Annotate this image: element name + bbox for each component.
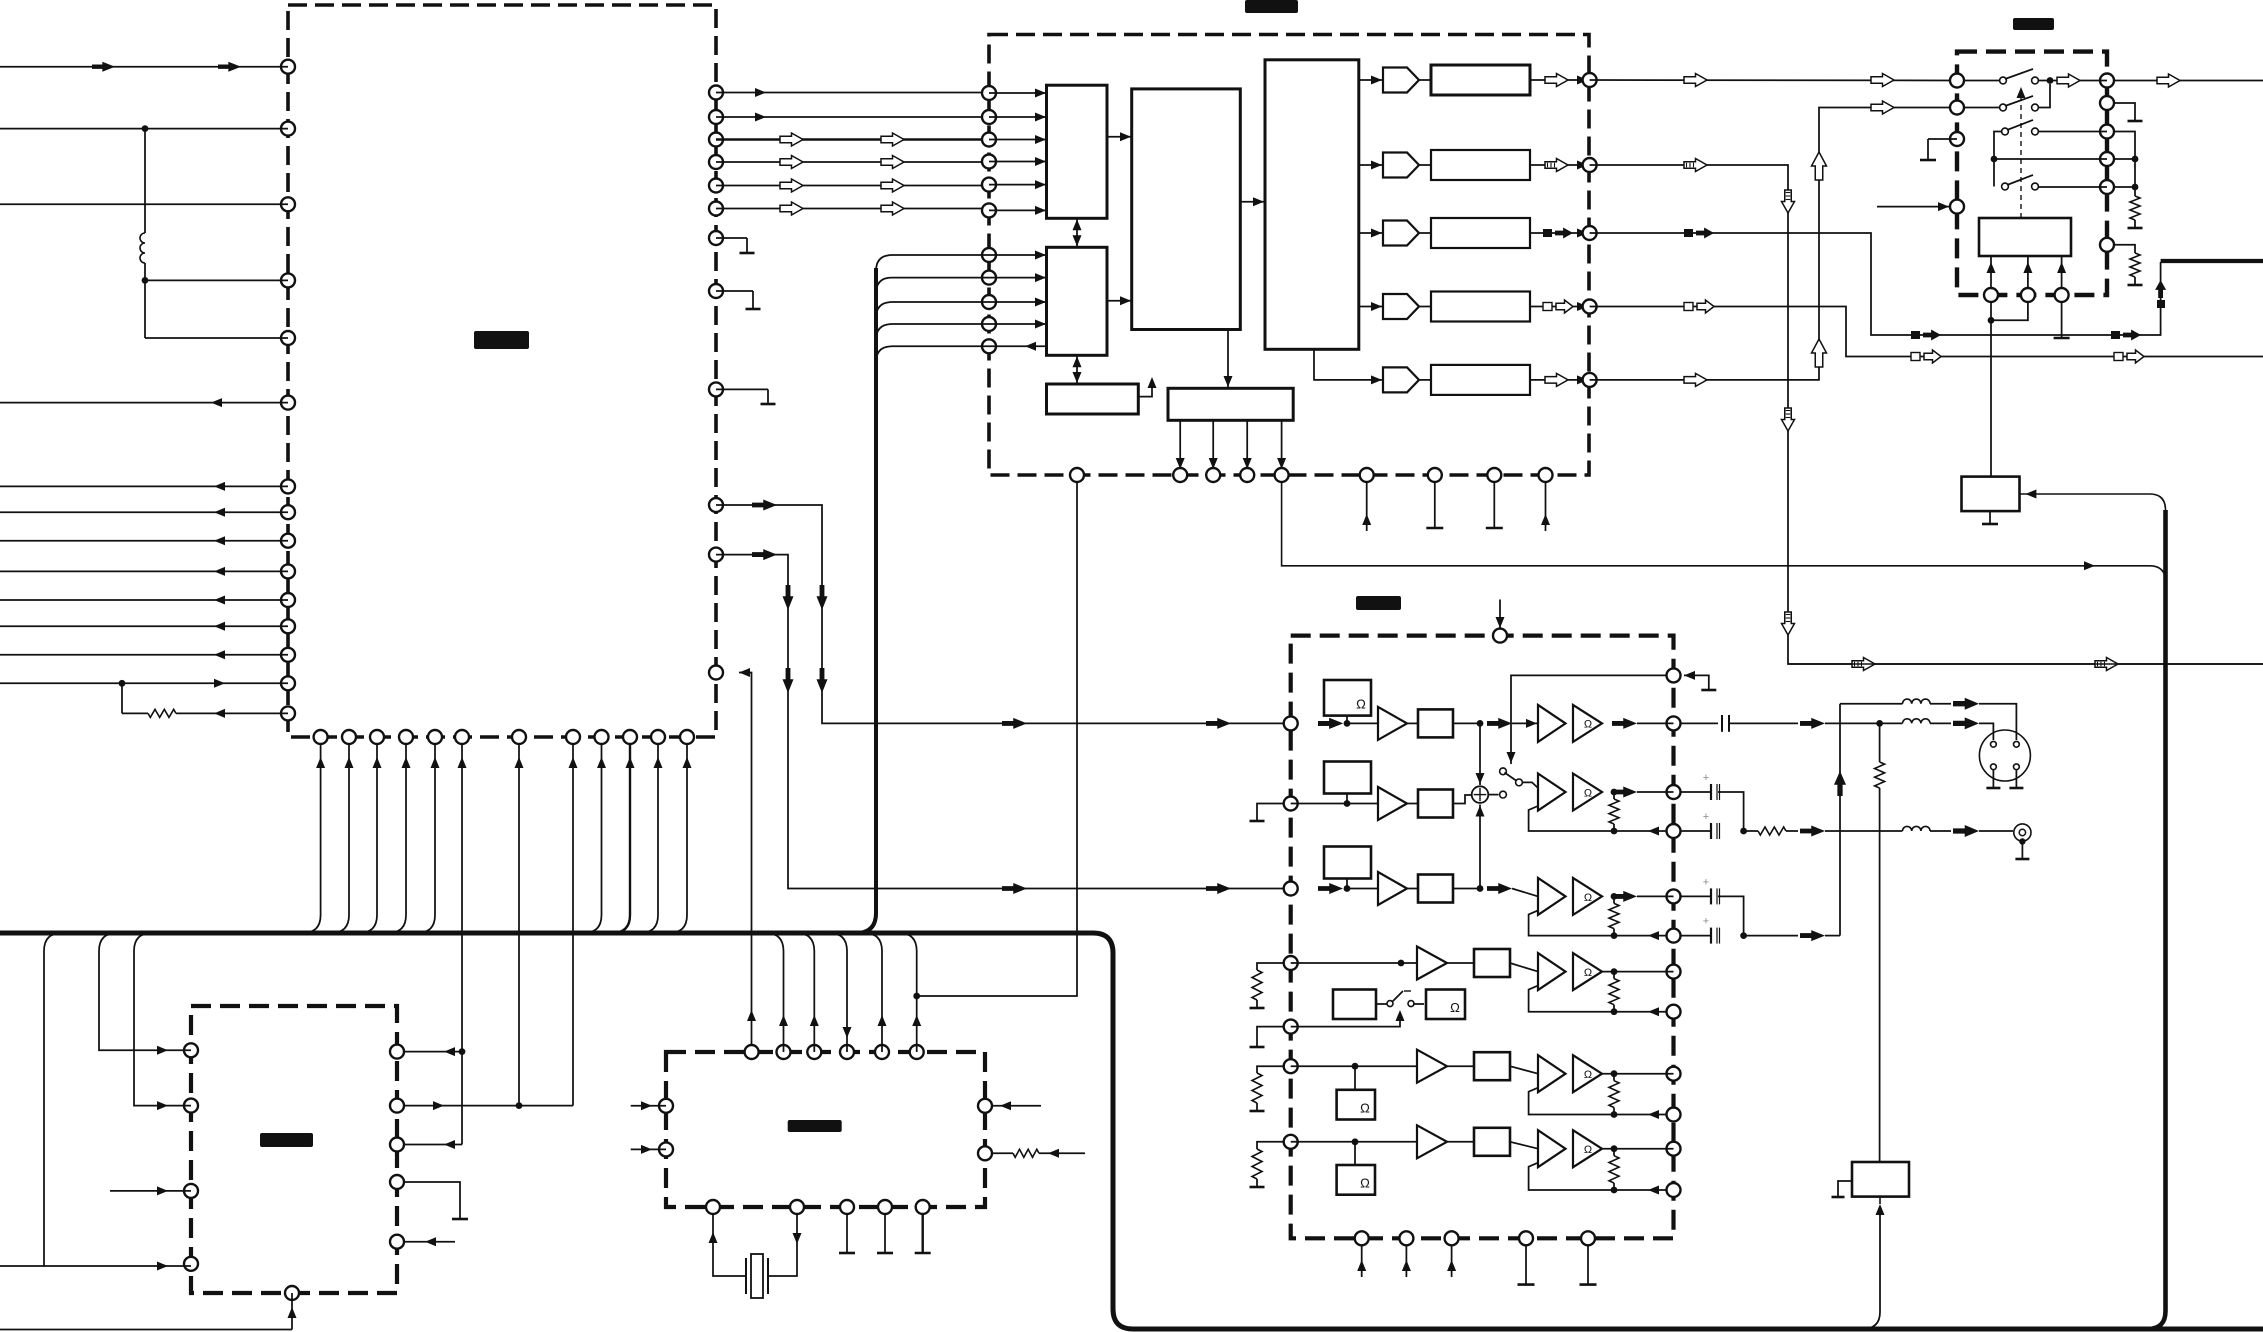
DSP core block inside IC2	[1132, 89, 1241, 330]
supply stubs at IC4 bottom pins	[1357, 1245, 1456, 1277]
DAC ch5 output wire to IC2 pin	[1419, 373, 1590, 386]
control-register block inside IC2	[1047, 247, 1108, 355]
wire DSP core down to timing block	[1224, 330, 1233, 389]
IC3 output wire to right edge	[2114, 74, 2263, 87]
IC2 part-number label (redacted)	[1245, 0, 1298, 13]
clock output stub with up arrow	[1138, 377, 1156, 397]
svg-text:Ω: Ω	[1584, 892, 1592, 904]
DAC ch4 output wire to IC2 pin	[1419, 300, 1590, 313]
bidirectional arrow between serial and control blocks	[1073, 218, 1082, 247]
DAC ch1 output wire to IC2 pin	[1419, 74, 1590, 87]
right-side bus riser (thick)	[2148, 510, 2166, 1329]
stub into IC5 pin R5	[404, 1237, 456, 1246]
IC1 system-control microprocessor (dashed outline)	[288, 5, 716, 737]
IC4 left pins	[1284, 716, 1298, 1148]
wire branch to IC1 pin 4	[142, 277, 288, 284]
IC2 digital signal processor (dashed outline)	[989, 35, 1589, 476]
DAC cell ch2 (U2)	[1383, 153, 1419, 178]
DIN connector CN1	[1979, 730, 2030, 781]
inductor L2 on front-output line	[1903, 717, 1994, 740]
wire to IC1 pin 2	[0, 125, 288, 132]
switch SW1-4	[1994, 159, 2107, 190]
IC4 ch3 output driver pair with feedback	[1529, 878, 1674, 940]
ground at IC3 ctrl pin	[1920, 139, 1957, 160]
serial-interface block inside IC2	[1047, 85, 1108, 218]
LPF block ch1	[1431, 65, 1530, 95]
wire IC1 bottom pin through bus (x573)	[569, 744, 578, 1106]
IC4 ch1 input attenuator with level box	[1318, 680, 1371, 729]
LPF block ch2	[1431, 150, 1530, 180]
electrolytic capacitors on ch3 output	[1680, 876, 1841, 943]
bidirectional arrow control block to clock block	[1073, 355, 1082, 384]
wire DAC ch3 to right edge (solid-square arrows)	[1590, 228, 2167, 341]
IC4 ch1 output driver pair	[1477, 705, 1674, 742]
timing control block inside IC2	[1168, 388, 1293, 420]
switch SW1-1 (main/sub select)	[1963, 69, 2107, 87]
inductor L1 on vertical branch	[140, 129, 145, 281]
IC5 right pins	[390, 1045, 404, 1249]
resistor R6 into IC6 right pin 2	[992, 1149, 1086, 1158]
wire ch1 tap down to summing node	[1476, 723, 1485, 785]
rear line crossing wire (y664)	[1789, 663, 2263, 665]
IC4 ch3 level box buffer filter	[1324, 847, 1538, 906]
svg-text:Ω: Ω	[1584, 967, 1592, 979]
data wire IC5 to IC1	[397, 1101, 573, 1110]
IC3 part-number label (redacted)	[2013, 18, 2054, 30]
IC3 bottom pins	[1984, 288, 2069, 302]
IC4 ch6 output driver pair with feedback	[1529, 1130, 1674, 1194]
IC4 right pins	[1667, 668, 1681, 1197]
bus peel-off wires to IC2 lower-left pins	[876, 255, 989, 362]
IC4 ch1 buffer and filter	[1347, 707, 1480, 740]
IC1 part-number label (redacted)	[474, 331, 529, 349]
svg-text:Ω: Ω	[1584, 788, 1592, 800]
wire control block to DSP core	[1107, 296, 1132, 305]
ground at IC1 pin (y238)	[716, 238, 755, 253]
wire ch3 tap up to summing node	[1476, 805, 1485, 889]
IC4 bottom pins	[1355, 1231, 1595, 1245]
svg-text:Ω: Ω	[1584, 1069, 1592, 1081]
riser wire ch3 feedback to DIN line	[1834, 704, 1846, 936]
sense wire from IC6 up to IC1 pin	[739, 668, 756, 1052]
DAC cell ch4 (U4)	[1383, 294, 1419, 319]
ground at IC3 pin R2	[2114, 103, 2143, 121]
wire to IC1 pin 14 with junction	[0, 679, 288, 688]
series resistor R5 on sub output	[1744, 826, 1903, 837]
IC4 ch6 level box buffer filter	[1291, 1125, 1538, 1194]
svg-text:+: +	[1703, 876, 1709, 888]
wire DAC ch5 up to switch IC3 input 2	[1590, 101, 1957, 386]
IC4 ch2 output driver pair with feedback	[1529, 774, 1674, 836]
wire DAC ch1 to switch IC3 input	[1590, 74, 1957, 87]
IC2 left pin row	[982, 86, 996, 353]
stub wire into IC6 right pin 1	[992, 1101, 1042, 1110]
resistor R3 at IC3 pin R6	[2114, 245, 2143, 285]
wire IC1 bottom pin to IC5 pins (x462)	[397, 744, 467, 1150]
ground at IC3 bottom pin 3	[2054, 302, 2070, 339]
crystal X1	[709, 1214, 802, 1299]
wire branch to IC1 pin 5	[145, 280, 288, 338]
svg-text:Ω: Ω	[1584, 1144, 1592, 1156]
grounds at IC6 bottom pins	[839, 1214, 931, 1254]
DAC ch3 output wire to IC2 pin	[1419, 228, 1590, 239]
grounds at IC4 bottom pins	[1518, 1245, 1597, 1285]
wire serial block to DSP core	[1107, 132, 1132, 141]
bias resistor at IC4 ch6 input	[1250, 1142, 1285, 1187]
control stub to IC5 pin 3	[110, 1186, 191, 1195]
control stub into IC3 pin 4	[1877, 202, 1951, 211]
bias resistor at IC4 ch5 input	[1250, 1066, 1285, 1111]
IC1 bottom pin row	[314, 730, 694, 744]
IC6 top pins	[745, 1045, 924, 1059]
summing node for ch1+ch3	[1472, 786, 1489, 803]
electrolytic capacitors on ch2 output	[1680, 772, 1748, 839]
svg-text:+: +	[1703, 772, 1709, 784]
ground at power block Q2	[1832, 1181, 1853, 1197]
DAC cell ch3 (U3)	[1383, 221, 1419, 246]
svg-text:Ω: Ω	[1360, 1176, 1370, 1191]
wires IC2 pins into control block	[989, 251, 1047, 351]
wire IC1 bottom pin through bus to IC5 data line (x519)	[515, 744, 524, 1110]
ground at IC4 ch4 control pin	[1250, 1027, 1285, 1047]
reset/power block Q1	[1962, 477, 2020, 512]
IC2 bottom pin row	[1070, 468, 1553, 482]
digital filter block inside IC2	[1265, 60, 1359, 350]
IC2 right pin row (DAC outputs)	[1583, 73, 1597, 387]
IC5 bottom pin	[285, 1286, 299, 1300]
load resistor R4 to power block	[1875, 723, 1885, 1162]
ground at IC1 pin (y389)	[716, 389, 776, 404]
IC4 ch5 output driver pair with feedback	[1529, 1055, 1674, 1119]
stub wires into IC6 left pins	[631, 1101, 666, 1154]
LPF block ch3	[1431, 218, 1530, 248]
DAC cell ch5 (U5)	[1383, 367, 1419, 392]
harness wires from main bus up to IC1 bottom pins	[303, 744, 692, 934]
DAC cell ch1 (U1)	[1383, 68, 1419, 93]
IC5 key/display controller (dashed outline)	[191, 1006, 397, 1293]
output wires from IC1 pins 7-13	[0, 482, 288, 659]
wires IC2 pins into serial block	[989, 89, 1047, 215]
IC6 left pins	[659, 1099, 673, 1157]
supply stub at IC2 bottom pin 6	[1362, 482, 1371, 532]
power detect block Q2	[1852, 1162, 1909, 1197]
svg-text:Ω: Ω	[1356, 697, 1366, 712]
ground at IC4 right pin (y675)	[1684, 671, 1716, 690]
IC4 ch4 buffer and filter	[1291, 947, 1538, 980]
IC4 ch5 level box buffer filter	[1291, 1050, 1538, 1120]
IC4 ch2 input pin ground	[1250, 804, 1285, 822]
wire left edge to IC5 pin 4 row	[0, 1265, 44, 1267]
ground at IC5 pin R4	[404, 1182, 469, 1219]
wires filter block to DAC cells	[1314, 76, 1383, 385]
LPF block ch5	[1431, 365, 1530, 395]
thick stub wire to right edge (y259)	[2161, 259, 2263, 263]
IC3 right pins	[2100, 74, 2114, 252]
IC4 ch4 output driver pair with feedback	[1529, 953, 1674, 1016]
IC6 right pins	[978, 1099, 992, 1161]
resistor R2 network at IC3 outputs	[2114, 132, 2143, 229]
IC3 left pins	[1950, 74, 1964, 214]
IC6 bottom pins	[706, 1200, 930, 1214]
DAC ch2 output wire to IC2 pin	[1419, 159, 1590, 172]
supply stub at IC2 bottom pin 9	[1541, 482, 1550, 532]
mute wire IC2 pin to right-side bus	[1282, 482, 2166, 582]
bus peel wires down to IC6 top pins	[766, 933, 922, 1052]
wire right-bus into power block	[2019, 490, 2165, 511]
svg-text:Ω: Ω	[1450, 1000, 1460, 1015]
ground at IC2 bottom pin 8	[1486, 482, 1503, 529]
coupling capacitor C1 on ch1 output	[1680, 715, 1903, 732]
LPF block ch4	[1431, 292, 1530, 322]
IC6 tuner/PLL controller (dashed outline)	[666, 1052, 985, 1207]
IC5 left pins	[184, 1043, 198, 1271]
svg-text:Ω: Ω	[1360, 1101, 1370, 1116]
wire DSP core to filter block	[1240, 197, 1265, 206]
switch control line (dashed)	[2017, 87, 2026, 218]
output wire from IC1 pin 6	[0, 398, 288, 407]
mute control wires below IC3	[1988, 302, 2028, 477]
IC1 left pin row	[281, 60, 295, 721]
IC4 top pin (Vcc)	[1493, 600, 1507, 643]
svg-text:+: +	[1703, 811, 1709, 823]
IC4 power amplifier (dashed outline)	[1291, 636, 1674, 1239]
ground at IC2 bottom pin 7	[1426, 482, 1443, 529]
IC1 right pin row	[709, 86, 723, 680]
IC4 ch4 switch-control pin wire	[1291, 1010, 1405, 1027]
inductor L3 on second DIN line	[1840, 698, 2016, 740]
clock generator block inside IC2	[1047, 384, 1139, 414]
mono/stereo select switch in IC4	[1489, 768, 1538, 798]
ground at IC1 pin (y291)	[716, 291, 761, 309]
inductor L4 on sub output	[1903, 825, 2014, 837]
clock/data wires IC1 to IC2 rows 3-6 with open arrows	[716, 133, 989, 215]
ground below power block	[1982, 511, 1998, 524]
switch driver block inside IC3	[1979, 218, 2071, 256]
bias resistor at IC4 ch4 input	[1250, 963, 1285, 1008]
data bus wires IC1 to IC2 rows 1-2	[716, 88, 989, 122]
svg-text:+: +	[1703, 916, 1709, 928]
bus peel wire to IC5 pin 1	[99, 933, 191, 1055]
IC4 ch4 mode switch with boxes	[1333, 990, 1465, 1020]
bundle riser to IC2 (thick)	[856, 268, 876, 933]
IC4 ch2 level box and buffer	[1291, 762, 1472, 821]
switch SW1-3	[1991, 120, 2107, 187]
feed wire from bottom bus into Q2	[1862, 1197, 1885, 1329]
wire KEY-IN to IC1 pin with arrows	[0, 62, 288, 72]
IC6 part-number label (redacted)	[788, 1120, 842, 1132]
wire bottom edge to IC5 bottom pin	[0, 1293, 297, 1330]
feedback wire from IC4 pin into switch	[1507, 675, 1668, 764]
audio control wire IC1 to power-amp IC4 ch1	[716, 500, 1343, 729]
wire to IC1 pin 3	[0, 203, 288, 205]
IC4 part-number label (redacted)	[1356, 596, 1401, 610]
timing block outputs to IC2 bottom pins	[1176, 420, 1286, 470]
audio control wire IC1 to power-amp IC4 ch3	[716, 549, 1343, 894]
IC3 audio source switch (dashed outline)	[1957, 52, 2107, 295]
resistor R1 branch to IC1 pin 15	[122, 683, 288, 718]
bus peel wire to IC5 pin 4	[44, 933, 191, 1271]
IC5 part-number label (redacted)	[260, 1133, 313, 1147]
driver inputs from IC3 bottom pins	[1987, 256, 2067, 289]
grounds at DIN connector	[1986, 770, 2023, 788]
wire DAC ch4 to right edge (open-square arrows)	[1590, 300, 2263, 363]
RCA jack J1	[2014, 824, 2031, 859]
switch SW1-2	[1963, 84, 2050, 111]
svg-text:Ω: Ω	[1584, 719, 1592, 731]
bus peel wire to IC5 pin 2	[134, 933, 191, 1110]
main wiring bus (thick)	[0, 933, 2263, 1329]
wire IC2 clock pin down to IC6 node	[917, 482, 1077, 997]
wire DAC ch2 down to rear output (hatched arrows)	[1590, 159, 2263, 671]
